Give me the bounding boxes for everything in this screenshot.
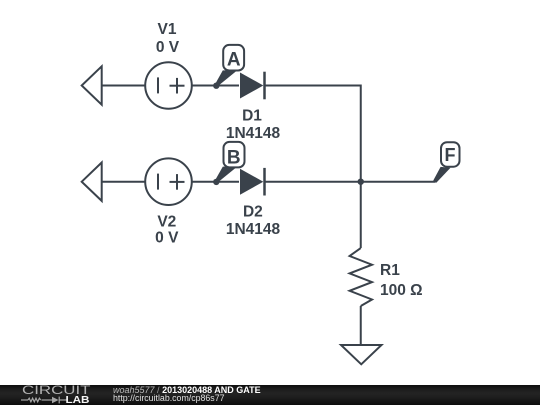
svg-text:D1: D1 (242, 107, 262, 124)
svg-text:1N4148: 1N4148 (226, 221, 281, 238)
svg-text:1N4148: 1N4148 (226, 125, 281, 142)
svg-text:R1: R1 (380, 262, 400, 279)
svg-text:LAB: LAB (66, 395, 90, 405)
svg-text:F: F (445, 145, 456, 165)
svg-text:D2: D2 (243, 203, 263, 220)
svg-text:V2: V2 (157, 214, 176, 231)
svg-text:0 V: 0 V (156, 39, 180, 56)
svg-text:100 Ω: 100 Ω (380, 282, 423, 299)
svg-text:V1: V1 (158, 21, 177, 38)
svg-text:B: B (227, 148, 241, 169)
svg-text:0 V: 0 V (155, 230, 179, 247)
svg-text:A: A (227, 50, 241, 71)
